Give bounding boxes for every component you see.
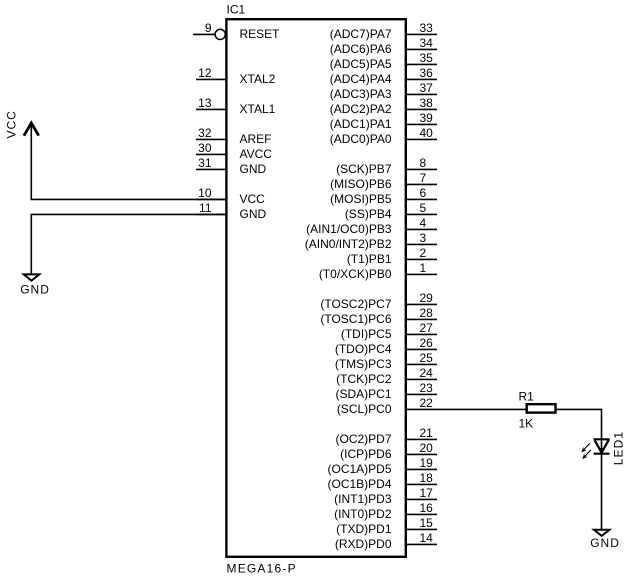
svg-text:(AIN1/OC0)PB3: (AIN1/OC0)PB3: [306, 222, 392, 236]
svg-text:38: 38: [420, 96, 434, 110]
svg-text:6: 6: [420, 186, 427, 200]
pin 26 wire: [407, 348, 438, 350]
svg-text:R1: R1: [519, 390, 535, 404]
pin 35 wire: [407, 63, 438, 65]
svg-text:13: 13: [198, 96, 212, 110]
svg-text:(ADC7)PA7: (ADC7)PA7: [330, 27, 392, 41]
svg-text:IC1: IC1: [227, 3, 246, 17]
svg-text:AREF: AREF: [240, 132, 272, 146]
pin 39 wire: [407, 123, 438, 125]
wire GND vertical: [30, 214, 32, 274]
svg-text:19: 19: [420, 456, 434, 470]
svg-text:(T1)PB1: (T1)PB1: [347, 252, 392, 266]
svg-text:39: 39: [420, 111, 434, 125]
svg-text:14: 14: [420, 531, 434, 545]
pin 31 wire: [196, 168, 226, 170]
LED1 anode bar: [594, 438, 610, 440]
svg-text:(OC1A)PD5: (OC1A)PD5: [327, 462, 391, 476]
svg-text:(RXD)PD0: (RXD)PD0: [335, 537, 392, 551]
svg-text:(ADC4)PA4: (ADC4)PA4: [330, 72, 392, 86]
pin 8 wire: [407, 168, 438, 170]
svg-text:28: 28: [420, 306, 434, 320]
svg-text:(ADC6)PA6: (ADC6)PA6: [330, 42, 392, 56]
pin 16 wire: [407, 513, 438, 515]
svg-text:4: 4: [420, 216, 427, 230]
pin 40 wire: [407, 138, 438, 140]
svg-text:(SCL)PC0: (SCL)PC0: [337, 402, 392, 416]
svg-text:33: 33: [420, 21, 434, 35]
LED1 light arrow 2: [585, 450, 591, 457]
svg-text:5: 5: [420, 201, 427, 215]
svg-text:36: 36: [420, 66, 434, 80]
svg-text:(ADC1)PA1: (ADC1)PA1: [330, 117, 392, 131]
pin 3 wire: [407, 243, 438, 245]
pin 15 wire: [407, 528, 438, 530]
svg-text:GND: GND: [240, 162, 267, 176]
resistor R1 body: [527, 404, 556, 412]
pin 7 wire: [407, 183, 438, 185]
svg-text:21: 21: [420, 426, 434, 440]
pin 36 wire: [407, 78, 438, 80]
pin 38 wire: [407, 108, 438, 110]
svg-text:(TDO)PC4: (TDO)PC4: [335, 342, 392, 356]
pin 11 wire: [196, 213, 226, 215]
svg-text:29: 29: [420, 291, 434, 305]
pin 23 wire: [407, 393, 438, 395]
svg-text:VCC: VCC: [240, 192, 266, 206]
svg-text:(TMS)PC3: (TMS)PC3: [335, 357, 392, 371]
pin 32 wire: [196, 138, 226, 140]
wire through LED: [601, 439, 603, 530]
svg-text:(INT0)PD2: (INT0)PD2: [334, 507, 392, 521]
pin 6 wire: [407, 198, 438, 200]
svg-text:RESET: RESET: [240, 27, 281, 41]
svg-text:10: 10: [198, 186, 212, 200]
pin 21 wire: [407, 438, 438, 440]
pin 25 wire: [407, 363, 438, 365]
pin 33 wire: [407, 33, 438, 35]
svg-text:(AIN0/INT2)PB2: (AIN0/INT2)PB2: [305, 237, 392, 251]
svg-text:(TOSC1)PC6: (TOSC1)PC6: [320, 312, 391, 326]
svg-text:MEGA16-P: MEGA16-P: [227, 562, 297, 576]
svg-text:31: 31: [198, 156, 212, 170]
pin 5 wire: [407, 213, 438, 215]
pin 17 wire: [407, 498, 438, 500]
svg-text:23: 23: [420, 381, 434, 395]
svg-text:VCC: VCC: [5, 110, 19, 138]
pin 4 wire: [407, 228, 438, 230]
svg-text:(MISO)PB6: (MISO)PB6: [330, 177, 392, 191]
svg-text:(ADC0)PA0: (ADC0)PA0: [330, 132, 392, 146]
svg-text:(ADC3)PA3: (ADC3)PA3: [330, 87, 392, 101]
svg-text:1: 1: [420, 261, 427, 275]
IC IC1 body MEGA16-P: [226, 19, 405, 557]
LED1 triangle: [595, 440, 609, 452]
wire pin 11 to GND: [31, 213, 227, 215]
svg-text:(T0/XCK)PB0: (T0/XCK)PB0: [319, 267, 392, 281]
svg-text:37: 37: [420, 81, 434, 95]
svg-text:(TCK)PC2: (TCK)PC2: [336, 372, 392, 386]
svg-text:24: 24: [420, 366, 434, 380]
svg-text:17: 17: [420, 486, 434, 500]
pin 27 wire: [407, 333, 438, 335]
LED1 light arrow 1: [584, 443, 590, 450]
svg-text:(OC2)PD7: (OC2)PD7: [335, 432, 391, 446]
svg-text:16: 16: [420, 501, 434, 515]
svg-text:(SCK)PB7: (SCK)PB7: [336, 162, 392, 176]
pin 18 wire: [407, 483, 438, 485]
svg-text:18: 18: [420, 471, 434, 485]
pin 28 wire: [407, 318, 438, 320]
svg-text:2: 2: [420, 246, 427, 260]
svg-text:(TXD)PD1: (TXD)PD1: [336, 522, 392, 536]
svg-text:11: 11: [199, 201, 212, 215]
svg-text:7: 7: [420, 171, 427, 185]
svg-text:12: 12: [198, 66, 212, 80]
svg-text:1K: 1K: [519, 417, 534, 431]
svg-text:(ADC2)PA2: (ADC2)PA2: [330, 102, 392, 116]
pin 24 wire: [407, 378, 438, 380]
svg-text:20: 20: [420, 441, 434, 455]
svg-text:GND: GND: [590, 536, 620, 550]
svg-text:22: 22: [420, 396, 434, 410]
wire VCC to pin 10: [31, 198, 227, 200]
pin 12 wire: [196, 78, 226, 80]
pin 22 wire / net to R1: [407, 408, 528, 410]
pin 19 wire: [407, 468, 438, 470]
pin 14 wire: [407, 543, 438, 545]
svg-text:9: 9: [205, 21, 212, 35]
svg-text:XTAL1: XTAL1: [240, 102, 276, 116]
pin 2 wire: [407, 258, 438, 260]
svg-text:25: 25: [420, 351, 434, 365]
pin 20 wire: [407, 453, 438, 455]
wire VCC vertical: [30, 123, 32, 199]
pin 30 wire: [196, 153, 226, 155]
pin 29 wire: [407, 303, 438, 305]
VCC supply symbol arrow: [24, 123, 39, 136]
svg-text:27: 27: [420, 321, 434, 335]
svg-text:AVCC: AVCC: [240, 147, 273, 161]
svg-text:XTAL2: XTAL2: [240, 72, 276, 86]
svg-text:40: 40: [420, 126, 434, 140]
svg-text:(TDI)PC5: (TDI)PC5: [341, 327, 392, 341]
svg-text:34: 34: [420, 36, 434, 50]
wire corner down to LED1: [601, 409, 603, 439]
ground symbol right: [594, 530, 610, 536]
LED1 cathode bar: [594, 453, 610, 455]
pin 1 wire: [407, 273, 438, 275]
pin 13 wire: [196, 108, 226, 110]
svg-text:35: 35: [420, 51, 434, 65]
svg-text:3: 3: [420, 231, 427, 245]
svg-text:(MOSI)PB5: (MOSI)PB5: [330, 192, 392, 206]
svg-text:(INT1)PD3: (INT1)PD3: [334, 492, 392, 506]
svg-text:26: 26: [420, 336, 434, 350]
svg-text:GND: GND: [20, 282, 50, 296]
ground symbol left: [24, 274, 40, 280]
svg-text:8: 8: [420, 156, 427, 170]
pin 9 RESET wire: [193, 29, 225, 39]
pin 34 wire: [407, 48, 438, 50]
svg-text:LED1: LED1: [611, 431, 625, 465]
pin 37 wire: [407, 93, 438, 95]
svg-text:(ADC5)PA5: (ADC5)PA5: [330, 57, 392, 71]
svg-text:32: 32: [198, 126, 212, 140]
svg-text:(SS)PB4: (SS)PB4: [345, 207, 392, 221]
svg-text:30: 30: [198, 141, 212, 155]
svg-text:(ICP)PD6: (ICP)PD6: [340, 447, 392, 461]
svg-text:GND: GND: [240, 207, 267, 221]
svg-text:15: 15: [420, 516, 434, 530]
RESET inverting bubble: [215, 29, 225, 39]
pin 10 wire: [196, 198, 226, 200]
svg-text:(OC1B)PD4: (OC1B)PD4: [327, 477, 391, 491]
svg-text:(SDA)PC1: (SDA)PC1: [335, 387, 391, 401]
wire R1 to corner: [557, 408, 602, 410]
svg-text:(TOSC2)PC7: (TOSC2)PC7: [320, 297, 391, 311]
